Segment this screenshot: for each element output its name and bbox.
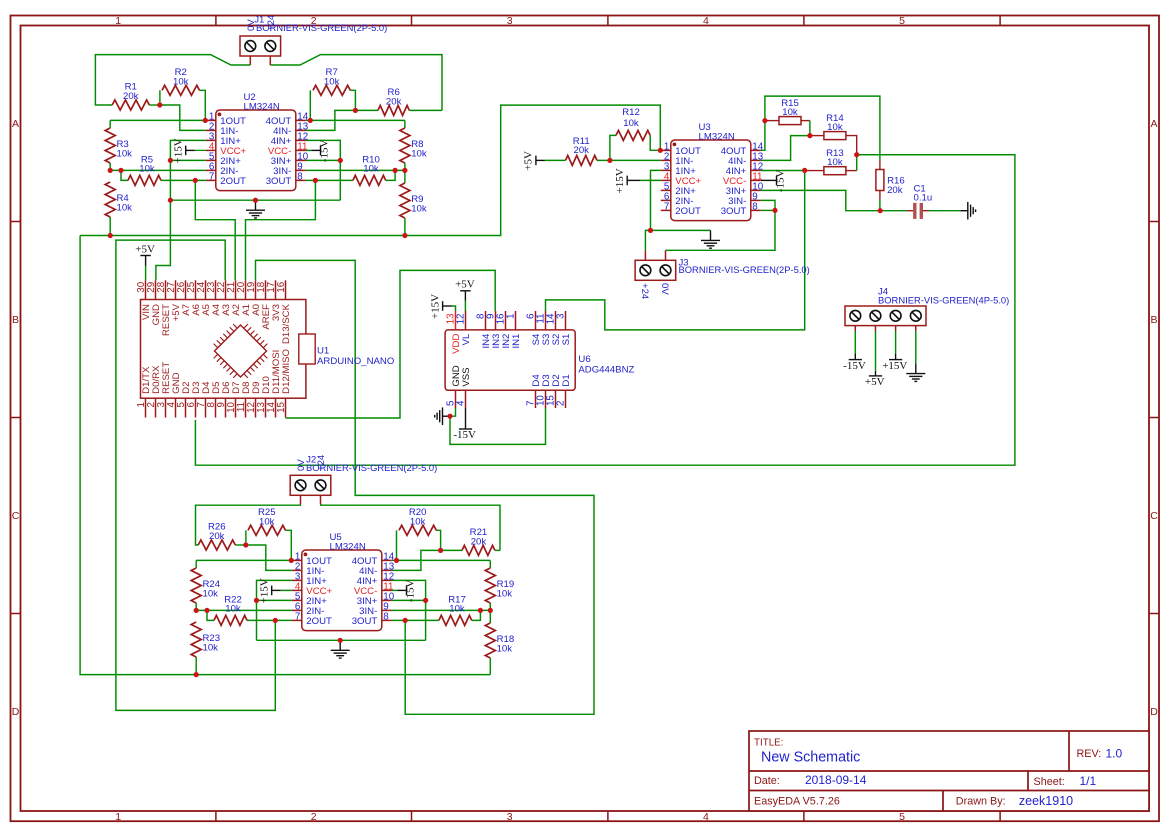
junction <box>308 118 313 123</box>
svg-text:Sheet:: Sheet: <box>1034 776 1065 788</box>
svg-text:+15V: +15V <box>429 294 441 319</box>
junction <box>273 618 278 623</box>
wire U3 pin12 row to R13 <box>761 170 805 172</box>
analog switch U6 ADG444BNZ <box>445 311 634 408</box>
wire U3 pin9 to pin8 junction <box>761 200 775 210</box>
junction <box>203 118 208 123</box>
resistor R17 <box>439 594 472 625</box>
svg-text:VSS: VSS <box>461 367 472 386</box>
lead R16 bottom <box>879 191 881 200</box>
svg-text:10k: 10k <box>363 164 379 175</box>
junction <box>772 208 777 213</box>
resistor R1 <box>112 82 149 110</box>
wire U2 pin6 row <box>110 169 206 171</box>
wire +15V flag to U6 VDD <box>452 306 456 311</box>
wire U3 pin14 loop over R15 to R16 <box>761 96 880 160</box>
svg-text:2OUT: 2OUT <box>306 616 332 627</box>
junction <box>194 608 199 613</box>
resistor R5 <box>128 154 161 185</box>
wire R19 leads <box>489 560 491 568</box>
wire R10 right up to pin9 row <box>386 170 395 180</box>
connector J4 BORNIER-VIS-GREEN(4P-5.0) <box>845 306 926 331</box>
wire U3 pin13 to R14 left junction <box>761 136 810 161</box>
junction <box>108 233 113 238</box>
svg-text:4: 4 <box>456 400 467 406</box>
svg-text:4: 4 <box>703 811 709 823</box>
ground <box>435 407 450 425</box>
wire U5 pin1 row to R24 top <box>196 559 292 561</box>
svg-text:ARDUINO_NANO: ARDUINO_NANO <box>317 356 394 367</box>
wire +5V flag to U6 VL <box>464 301 466 311</box>
label J4 <box>878 286 1009 305</box>
wire junction to U2 pin2 <box>160 105 206 130</box>
svg-text:IN1: IN1 <box>511 334 522 349</box>
svg-text:S1: S1 <box>561 334 572 346</box>
wire J3 pin1 drop <box>645 230 650 250</box>
wire U2 pin3 down to pin5 junction and y200 line <box>170 140 205 200</box>
svg-text:-15V: -15V <box>405 580 417 603</box>
wire R22 right to U5 pin7 <box>247 619 292 621</box>
wire J4 pin1 to -15V <box>854 331 856 354</box>
wire J1 pin2 to R6 right (net +24) <box>270 55 442 111</box>
wire arduino A0 to U5 pin8 <box>256 260 595 714</box>
ground <box>331 640 350 658</box>
junction <box>118 168 123 173</box>
junction <box>393 168 398 173</box>
svg-text:1: 1 <box>506 314 517 319</box>
wire J2 pin1 to R26 left (net 0V) <box>196 504 301 545</box>
wire R24 leads <box>195 560 197 568</box>
wire R20 left lead <box>396 530 398 560</box>
wire mid bus y235 with loop over U3 to U3 pin1 <box>80 105 660 235</box>
wire U2 pin10 <box>306 159 341 161</box>
wire R1 right to junction <box>149 104 160 106</box>
svg-text:7: 7 <box>664 202 669 213</box>
svg-text:8: 8 <box>752 202 758 213</box>
wire R12 right down to U3 pin1 <box>650 135 661 150</box>
svg-text:0V: 0V <box>659 283 670 295</box>
svg-text:+15V: +15V <box>882 360 907 372</box>
wire U6 GND to ground junction <box>450 408 456 416</box>
wire U5 pin14 row to R19 top <box>392 559 491 561</box>
lead R13 right <box>846 170 857 172</box>
lead R14 left <box>810 135 824 137</box>
junction <box>807 133 812 138</box>
svg-text:10k: 10k <box>203 589 219 600</box>
wire y640 up to U5 pin10/pin12 junction <box>392 580 426 640</box>
svg-text:20k: 20k <box>574 145 590 156</box>
junction <box>338 158 343 163</box>
power flag +15V <box>172 138 194 163</box>
wire U3 pin8 to J3 pin2 <box>666 210 776 250</box>
wire U5 ground line y640 <box>257 639 426 641</box>
svg-text:-15V: -15V <box>843 360 866 372</box>
wire -15V at U5 pin11 <box>392 589 398 591</box>
wire U5 pin3 down to ground line <box>257 580 292 640</box>
wire left drop from bus y235 to bus y674 <box>80 236 196 675</box>
power flag -15V <box>843 354 866 372</box>
svg-text:3OUT: 3OUT <box>721 206 747 217</box>
svg-text:20k: 20k <box>123 91 139 102</box>
connector J1 BORNIER-VIS-GREEN(2P-5.0) <box>240 36 281 65</box>
wire R25 right to U5 pin1 <box>286 530 292 560</box>
svg-text:2OUT: 2OUT <box>220 176 246 187</box>
svg-text:7: 7 <box>295 612 300 623</box>
wire U3 pin3 down to J3 pin1 <box>651 170 661 230</box>
power flag +15V <box>882 354 907 372</box>
power flag +15V <box>258 578 280 603</box>
svg-text:10k: 10k <box>497 589 513 600</box>
resistor R15 <box>779 98 801 125</box>
wire bottom bus y674 <box>196 674 490 676</box>
wire U5 pin9 row <box>392 609 491 611</box>
wire R21 right up to J2 net <box>495 549 500 551</box>
svg-text:15: 15 <box>276 401 287 412</box>
svg-text:+15V: +15V <box>614 168 626 193</box>
svg-text:16: 16 <box>276 281 287 292</box>
label J3 <box>639 257 810 300</box>
resistor R10 <box>353 154 386 185</box>
wire U2 pin5 <box>170 159 205 161</box>
wire J4 pin3 to +15V <box>895 331 897 354</box>
wire junction to U5 pin2 <box>246 545 292 570</box>
wire R20 right to junction <box>436 530 440 550</box>
svg-text:BORNIER-VIS-GREEN(2P-5.0): BORNIER-VIS-GREEN(2P-5.0) <box>679 264 810 275</box>
svg-text:+5V: +5V <box>523 151 535 171</box>
wire R8 leads <box>404 120 406 128</box>
svg-text:+15V: +15V <box>172 138 184 163</box>
svg-text:LM324N: LM324N <box>699 132 735 143</box>
svg-text:8: 8 <box>297 172 303 183</box>
junction <box>478 608 483 613</box>
svg-text:10k: 10k <box>782 107 798 118</box>
junction <box>243 542 248 547</box>
svg-text:10k: 10k <box>411 149 427 160</box>
svg-text:10k: 10k <box>449 604 465 615</box>
svg-text:1: 1 <box>115 15 121 27</box>
wire junction to R5 left <box>121 170 128 180</box>
wire junction to R2 left <box>159 90 161 105</box>
resistor R22 <box>214 594 247 625</box>
wire R26 right to junction <box>235 544 246 546</box>
wire U2 pin7 down to arduino A2 <box>195 180 235 280</box>
op-amp U5 LM324N <box>292 532 395 631</box>
resistor R25 <box>248 507 286 535</box>
wire U5 pin6 row <box>196 609 292 611</box>
wire J4 pin2 to +5V <box>875 331 877 371</box>
lead R16 top <box>879 160 881 169</box>
svg-text:3OUT: 3OUT <box>266 176 292 187</box>
wire C1 right to ground <box>929 210 960 212</box>
junction <box>253 198 258 203</box>
wire J1 pin1 to R1 left (net 0V) <box>95 55 250 105</box>
svg-text:R12: R12 <box>622 107 640 118</box>
svg-text:-15V: -15V <box>453 429 476 441</box>
svg-text:10k: 10k <box>497 644 513 655</box>
wire R21 left lead <box>441 549 462 551</box>
svg-text:D12/MISO: D12/MISO <box>281 349 292 394</box>
wire +15V to U5 pin4 <box>281 589 292 591</box>
svg-text:10k: 10k <box>324 76 340 87</box>
svg-text:20k: 20k <box>386 96 402 107</box>
connector J2 BORNIER-VIS-GREEN(2P-5.0) <box>290 475 331 504</box>
junction <box>204 608 209 613</box>
svg-text:-15V: -15V <box>319 140 331 163</box>
svg-text:10k: 10k <box>623 118 639 129</box>
junction <box>353 108 358 113</box>
svg-text:10k: 10k <box>225 604 241 615</box>
svg-text:10k: 10k <box>827 122 843 133</box>
wire J4 pin4 to ground <box>915 331 917 364</box>
svg-text:+24: +24 <box>639 283 650 300</box>
wire ground junction to U6 D3 <box>450 408 546 444</box>
svg-text:Drawn By:: Drawn By: <box>956 795 1006 807</box>
junction <box>402 233 407 238</box>
resistor R4 <box>105 182 132 217</box>
wire R3 leads <box>109 120 111 128</box>
wire junction to R22 left <box>207 610 214 620</box>
resistor R23 <box>191 622 220 657</box>
svg-text:20k: 20k <box>209 531 225 542</box>
junction <box>802 168 807 173</box>
wire U5 pin8 to R17 <box>392 619 439 621</box>
svg-text:C: C <box>12 510 20 522</box>
junction <box>289 558 294 563</box>
wire R13/R14 junction line to the right <box>857 154 1015 156</box>
power flag -15V <box>398 580 417 603</box>
svg-text:10k: 10k <box>411 204 427 215</box>
junction <box>338 638 343 643</box>
resistor R3 <box>105 128 132 163</box>
svg-text:7: 7 <box>209 172 214 183</box>
wire U5 pin10 <box>392 599 426 601</box>
power flag +15V <box>429 294 451 319</box>
junction <box>658 148 663 153</box>
svg-text:10k: 10k <box>203 643 219 654</box>
resistor R6 <box>378 87 409 115</box>
power flag -15V <box>453 408 476 441</box>
wire R6 right up to J1 net <box>409 109 442 111</box>
op-amp U3 LM324N <box>661 122 764 221</box>
svg-text:B: B <box>12 314 19 326</box>
svg-text:2OUT: 2OUT <box>675 206 701 217</box>
svg-text:2018-09-14: 2018-09-14 <box>805 773 867 787</box>
svg-text:5: 5 <box>899 811 905 823</box>
wire U2 pin1 row to R3 top <box>110 119 206 121</box>
svg-text:1.0: 1.0 <box>1106 747 1123 761</box>
power flag +5V <box>523 151 545 171</box>
svg-text:D13/SCK: D13/SCK <box>281 303 292 344</box>
resistor R24 <box>191 568 221 603</box>
ground <box>701 230 720 248</box>
power flag -15V <box>761 170 787 193</box>
svg-text:20k: 20k <box>471 536 487 547</box>
svg-text:B: B <box>1150 314 1157 326</box>
svg-text:4: 4 <box>703 15 709 27</box>
svg-text:BORNIER-VIS-GREEN(2P-5.0): BORNIER-VIS-GREEN(2P-5.0) <box>256 22 387 33</box>
op-amp U2 LM324N <box>206 92 309 191</box>
connector J3 BORNIER-VIS-GREEN(2P-5.0) <box>635 250 676 280</box>
wire arduino D3 to main bus y465 up to R13/R14 junction <box>195 155 1015 466</box>
resistor R19 <box>485 568 514 603</box>
svg-text:BORNIER-VIS-GREEN(2P-5.0): BORNIER-VIS-GREEN(2P-5.0) <box>306 462 437 473</box>
capacitor C1 0.1u <box>907 183 932 219</box>
resistor R16 <box>876 170 905 196</box>
ground <box>906 364 925 382</box>
power flag -15V <box>312 140 331 163</box>
svg-text:10k: 10k <box>117 203 133 214</box>
ground <box>960 202 975 220</box>
wire R9 leads <box>404 170 406 183</box>
junction <box>854 152 859 157</box>
svg-text:BORNIER-VIS-GREEN(4P-5.0): BORNIER-VIS-GREEN(4P-5.0) <box>878 294 1009 305</box>
wire R4 bottom to bus <box>109 217 111 236</box>
junction <box>194 672 199 677</box>
svg-text:+5V: +5V <box>455 279 475 291</box>
resistor R13 <box>824 148 846 175</box>
resistor R14 <box>824 113 846 140</box>
junction <box>157 102 162 107</box>
svg-text:C: C <box>1150 510 1158 522</box>
wire +5V flag to R11 <box>545 159 566 161</box>
lead R15 left <box>765 120 779 122</box>
svg-text:10k: 10k <box>139 164 155 175</box>
wire to arduino GND pin29 <box>156 200 171 280</box>
svg-text:D1: D1 <box>561 374 572 386</box>
lead R14 right down to junction <box>846 136 857 155</box>
junction <box>438 548 443 553</box>
resistor R21 <box>462 527 495 555</box>
junction <box>648 228 653 233</box>
wire U2 pin14 row to R8 top <box>306 119 405 121</box>
power flag +15V <box>614 168 640 193</box>
svg-text:10k: 10k <box>117 149 133 160</box>
svg-text:EasyEDA V5.7.26: EasyEDA V5.7.26 <box>754 795 840 807</box>
svg-text:3: 3 <box>507 811 513 823</box>
junction <box>607 158 612 163</box>
svg-text:3: 3 <box>507 15 513 27</box>
svg-text:TITLE:: TITLE: <box>754 738 783 749</box>
svg-text:Date:: Date: <box>754 775 780 787</box>
junction <box>254 598 259 603</box>
svg-text:0.1u: 0.1u <box>914 193 933 204</box>
svg-text:10k: 10k <box>259 516 275 527</box>
wire arduino A3 to U5 pin7 <box>116 240 275 710</box>
wire arduino D12/MISO to U6 IN3 <box>286 270 496 418</box>
svg-text:20k: 20k <box>887 185 903 196</box>
wire U2 pin13 to R6/R7 junction <box>306 110 356 130</box>
svg-text:8: 8 <box>383 612 389 623</box>
wire U3 pin12 down to U6 S3 <box>546 170 805 330</box>
svg-text:U1: U1 <box>317 346 329 357</box>
junction <box>402 168 407 173</box>
svg-text:1/1: 1/1 <box>1080 774 1097 788</box>
junction <box>762 118 767 123</box>
resistor R2 <box>162 67 200 95</box>
wire U3 pin10 to C1 <box>761 190 880 210</box>
svg-text:A: A <box>1150 118 1157 130</box>
wire -15V at U2 pin11 <box>306 149 312 151</box>
svg-text:D: D <box>1150 706 1158 718</box>
wire R23 bottom to bus <box>195 657 197 675</box>
power flag +5V <box>135 243 155 265</box>
wire U2 pin8 down to arduino A1 <box>246 180 316 280</box>
resistor R7 <box>313 67 350 95</box>
svg-text:3: 3 <box>556 313 567 319</box>
resistor R26 <box>198 522 235 550</box>
wire R7 left lead <box>309 90 311 120</box>
junction <box>193 178 198 183</box>
resistor R12 <box>616 107 650 140</box>
svg-text:3OUT: 3OUT <box>352 616 378 627</box>
svg-text:New Schematic: New Schematic <box>761 750 860 766</box>
wire U3 pin8 junction <box>761 209 775 211</box>
wire y200 ground line <box>170 199 340 201</box>
svg-text:LM324N: LM324N <box>330 542 366 553</box>
wire R16 bottom to C1 junction <box>879 200 881 211</box>
junction <box>108 168 113 173</box>
svg-text:A: A <box>12 118 19 130</box>
junction <box>168 198 173 203</box>
svg-text:+15V: +15V <box>258 578 270 603</box>
lead R15 right <box>801 120 810 122</box>
lead R13 left <box>805 170 824 172</box>
junction <box>168 158 173 163</box>
wire R5 right to U2 pin7 <box>161 179 206 181</box>
wire R18 leads <box>489 610 491 623</box>
MCU U1 ARDUINO_NANO <box>136 280 394 417</box>
svg-text:D: D <box>12 706 20 718</box>
wire U5 pin5 <box>257 599 292 601</box>
wire R7 right to junction <box>350 90 355 110</box>
wire U2 pin8 to R10 <box>306 179 353 181</box>
wire R2 right to U2 pin1 <box>200 90 206 120</box>
wire J2 pin2 to R21 right (net +24) <box>321 504 500 550</box>
wire junction to R25 left <box>245 530 247 545</box>
resistor R18 <box>485 623 514 658</box>
svg-text:-15V: -15V <box>775 170 787 193</box>
junction <box>488 608 493 613</box>
wire U2 pin9 row <box>306 169 405 171</box>
svg-text:10k: 10k <box>173 76 189 87</box>
svg-text:ADG444BNZ: ADG444BNZ <box>578 364 634 375</box>
junction <box>878 208 883 213</box>
wire R13 right up to R14 junction <box>856 155 858 171</box>
svg-text:1: 1 <box>115 811 121 823</box>
wire R17 right up to pin9 row <box>472 610 481 620</box>
title block <box>749 731 1149 811</box>
resistor R20 <box>399 507 436 535</box>
wire U5 pin13 to R20/R21 junction <box>392 550 441 570</box>
resistor R11 <box>566 136 598 165</box>
svg-text:LM324N: LM324N <box>244 102 280 113</box>
svg-text:10k: 10k <box>410 516 426 527</box>
svg-text:REV:: REV: <box>1077 748 1102 760</box>
wire R6 left lead <box>355 109 378 111</box>
label J1 <box>246 14 387 33</box>
wire U3 ground line <box>651 229 711 231</box>
junction <box>447 414 452 419</box>
junction <box>423 598 428 603</box>
svg-text:VL: VL <box>461 333 472 345</box>
svg-text:+5V: +5V <box>135 243 155 255</box>
svg-text:5: 5 <box>899 15 905 27</box>
svg-text:2: 2 <box>556 401 567 406</box>
svg-text:12: 12 <box>456 314 467 325</box>
wire junction up to R12 left <box>610 135 616 160</box>
wire R15 right down to R14 left <box>809 121 811 136</box>
power flag +5V <box>865 371 885 388</box>
